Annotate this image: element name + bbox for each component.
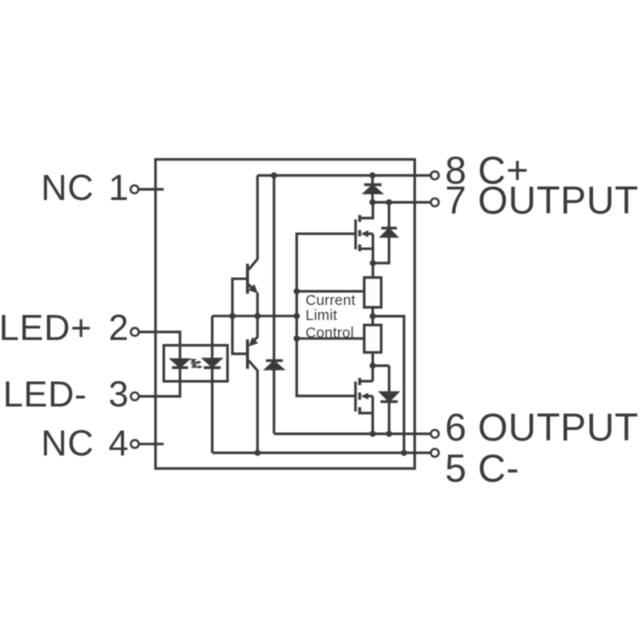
svg-text:Limit: Limit bbox=[306, 308, 338, 324]
svg-text:2: 2 bbox=[108, 307, 128, 348]
pin 8 terminal circle bbox=[431, 171, 439, 179]
body diode D5 (lower) bbox=[381, 366, 398, 434]
resistor R2 bbox=[364, 325, 381, 352]
pin 5 terminal circle bbox=[431, 449, 439, 457]
svg-text:3: 3 bbox=[108, 374, 128, 415]
wire pin6 output rail bbox=[274, 432, 431, 435]
wire photo rail (Darlington base rail) bbox=[212, 315, 297, 318]
package outline box bbox=[156, 159, 415, 468]
node M1 source / D4 anode bbox=[370, 260, 376, 266]
node R1-R2 tap bbox=[370, 313, 376, 319]
pin 1 terminal circle bbox=[131, 185, 139, 193]
node C+ / D3 bbox=[271, 172, 277, 178]
node pin7 / M1 drain bbox=[369, 199, 375, 205]
wire R1-R2 link and C- tap bbox=[373, 307, 404, 453]
svg-text:5 C-: 5 C- bbox=[445, 447, 519, 490]
wire C- rail bbox=[212, 451, 430, 454]
pin 4 wire stub bbox=[139, 443, 164, 446]
pin 6 terminal circle bbox=[431, 430, 439, 438]
pin 3 wire from LED cathode bbox=[139, 368, 180, 397]
resistor R1 bbox=[364, 278, 381, 308]
diode D6 (pin7 to C+) bbox=[364, 175, 381, 202]
node CLC bottom bbox=[294, 335, 300, 341]
node pin6 / D5 bbox=[386, 431, 392, 437]
junction dots bbox=[229, 172, 407, 456]
pin 2 wire to LED anode bbox=[139, 332, 180, 360]
svg-text:LED-: LED- bbox=[3, 374, 87, 415]
svg-text:4: 4 bbox=[108, 423, 128, 464]
svg-text:Current: Current bbox=[306, 293, 356, 309]
diode D3 (clamp to C+) bbox=[266, 175, 283, 433]
MOSFET M1 (upper) bbox=[356, 202, 373, 277]
svg-text:LED+: LED+ bbox=[0, 307, 92, 348]
node CLC mid bbox=[294, 313, 300, 319]
CLC box bottom line bbox=[297, 337, 365, 340]
photodiode D2 bbox=[204, 316, 221, 453]
node C+ / D4 bbox=[369, 172, 375, 178]
node pin6 / M2 source bbox=[370, 431, 376, 437]
wire pin7 output rail bbox=[373, 201, 431, 204]
node pin7 / D4 bbox=[386, 199, 392, 205]
pin 2 terminal circle bbox=[131, 328, 139, 336]
svg-text:NC: NC bbox=[41, 167, 94, 208]
wire C+ rail bbox=[258, 174, 431, 177]
pin 1 wire stub bbox=[139, 188, 164, 191]
svg-text:NC: NC bbox=[41, 423, 94, 464]
pin 4 terminal circle bbox=[131, 440, 139, 448]
transistor Q1 bbox=[248, 175, 258, 337]
node base rail / Q1 emitter bbox=[254, 313, 260, 319]
MOSFET M2 (lower) bbox=[356, 378, 373, 434]
svg-text:6 OUTPUT: 6 OUTPUT bbox=[445, 407, 639, 450]
pin 3 terminal circle bbox=[131, 392, 139, 400]
transistor Q2 bbox=[248, 337, 259, 453]
svg-text:Control: Control bbox=[306, 325, 354, 341]
gate drive vertical (CLC left edge) bbox=[297, 234, 356, 396]
CLC box top line bbox=[297, 290, 365, 293]
node C- / Q2 collector bbox=[254, 450, 260, 456]
wire below R2 bbox=[373, 352, 389, 381]
wire Q1 base drop bbox=[232, 279, 246, 354]
svg-text:1: 1 bbox=[108, 167, 128, 208]
node CLC top bbox=[294, 288, 300, 294]
node base rail / Q1 base bbox=[229, 313, 235, 319]
svg-text:7 OUTPUT: 7 OUTPUT bbox=[445, 180, 639, 223]
node C- / R tap bbox=[401, 450, 407, 456]
node R2 / M2 drain / D5 bbox=[370, 363, 376, 369]
LED D1 bbox=[172, 360, 188, 368]
body diode D4 (upper) bbox=[373, 202, 397, 263]
pin 7 terminal circle bbox=[431, 198, 439, 206]
opto-coupler box bbox=[164, 345, 228, 381]
light coupling arrows bbox=[191, 360, 203, 369]
